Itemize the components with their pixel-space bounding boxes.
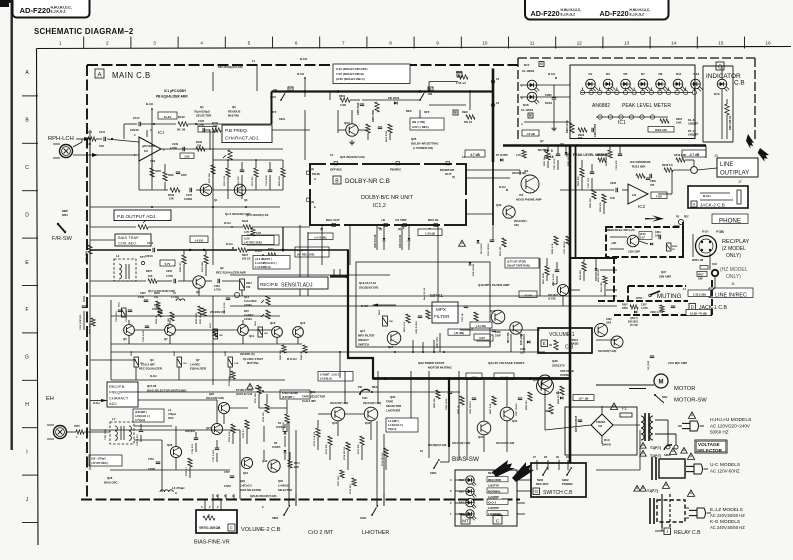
svg-text:D: D [25, 212, 29, 218]
svg-text:C905: C905 [545, 93, 552, 97]
label R-CH rowG [150, 357, 297, 378]
label Q1 selector [194, 105, 211, 118]
svg-text:ON (AT TAPE RUN): ON (AT TAPE RUN) [507, 265, 530, 268]
svg-text:C805 100/10: C805 100/10 [470, 401, 472, 414]
frame column ticks [84, 37, 745, 49]
parts row F upper [90, 292, 240, 342]
transistor Q30 [262, 459, 280, 472]
svg-text:R511 10K: R511 10K [601, 282, 603, 292]
value box 3.7V AT STOP [505, 258, 539, 268]
indicator terminal pins row [580, 88, 696, 95]
resistor R705 [191, 438, 198, 454]
LED D17 [527, 80, 539, 92]
svg-text:Q25: Q25 [411, 137, 417, 141]
svg-text:470μH: 470μH [168, 412, 176, 416]
svg-text:8: 8 [389, 41, 392, 46]
bias LED D21 [459, 498, 476, 509]
transistor Q34 [500, 407, 518, 423]
capacitor C707 3.3/50 [224, 471, 234, 488]
svg-text:I: I [26, 449, 27, 455]
bias LED box [455, 470, 517, 526]
warning T1 PT 2 [640, 450, 661, 458]
svg-text:PHONE: PHONE [719, 217, 741, 224]
boxed C small2 [457, 72, 462, 77]
bus thick horizontal y91 [272, 90, 494, 93]
svg-text:1/2 VRIF: 1/2 VRIF [395, 218, 407, 222]
bus medium y250 [90, 249, 349, 252]
svg-text:R310 40R: R310 40R [201, 262, 204, 272]
svg-text:D9 151555: D9 151555 [481, 243, 483, 254]
svg-text:E6R: E6R [294, 466, 299, 469]
svg-text:D17: D17 [524, 63, 530, 67]
svg-text:REC-OUT: REC-OUT [326, 218, 340, 222]
svg-text:REC/P.B: REC/P.B [109, 384, 125, 389]
svg-text:D14 151588: D14 151588 [472, 263, 475, 276]
transistor Q27 [206, 423, 223, 434]
svg-text:C409 0.0056: C409 0.0056 [415, 321, 418, 334]
label Q36 2SD1275 VOLTAGE CONST [552, 359, 574, 377]
svg-text:S901: S901 [430, 471, 437, 475]
svg-text:B-CH: B-CH [146, 102, 153, 106]
svg-text:CrO 2 /MT: CrO 2 /MT [308, 530, 334, 536]
svg-text:Q5,7,9 2SC1815(Y,GR): Q5,7,9 2SC1815(Y,GR) [148, 289, 175, 293]
svg-text:KT10B KT10A: KT10B KT10A [236, 389, 253, 392]
svg-text:Q27: Q27 [206, 426, 211, 430]
svg-text:Q1: Q1 [214, 198, 218, 202]
svg-text:4.7K: 4.7K [244, 231, 249, 234]
svg-text:P.B FREQ.: P.B FREQ. [225, 128, 248, 134]
label D17 CL-9R04 [522, 62, 544, 74]
wire long horizontals [90, 130, 640, 499]
svg-text:J1: J1 [731, 282, 735, 286]
svg-text:R705 5.8H: R705 5.8H [229, 431, 231, 442]
svg-text:Q17: Q17 [388, 345, 394, 349]
svg-text:R353: R353 [672, 246, 678, 248]
svg-text:R411 4.7K: R411 4.7K [403, 321, 406, 332]
svg-text:2SA1015(Y-GR): 2SA1015(Y-GR) [363, 402, 381, 405]
svg-text:N25 2SC(B)(S(Y,GR): N25 2SC(B)(S(Y,GR) [218, 65, 243, 69]
svg-text:Q1-5 2SC945(Y,G6: Q1-5 2SC945(Y,G6 [246, 213, 269, 217]
transistor Q29 [206, 392, 230, 414]
boxed E small [428, 87, 433, 92]
resistor R415 33K [378, 309, 393, 326]
svg-text:C301 10/16: C301 10/16 [554, 158, 556, 170]
svg-text:D7: D7 [641, 72, 645, 76]
svg-text:LH/OTHER: LH/OTHER [362, 530, 389, 536]
svg-text:C401: C401 [520, 348, 526, 351]
svg-text:10K: 10K [264, 333, 268, 335]
svg-text:2SC1815(Y-GR): 2SC1815(Y-GR) [598, 350, 616, 353]
svg-text:D11: D11 [676, 72, 682, 76]
label Q3 CrO2 MT REC EQUALIZER [139, 358, 162, 371]
bold arrow 2 [758, 148, 769, 162]
capacitor C403 100P [489, 330, 496, 346]
label R-CH recplay left [702, 231, 722, 234]
LED D9 [656, 72, 668, 91]
svg-text:C.B: C.B [734, 80, 745, 87]
value box rec levels 3line [253, 256, 290, 270]
svg-text:L7: L7 [112, 417, 116, 421]
svg-text:FREQ.: FREQ. [109, 390, 121, 395]
svg-text:13: 13 [496, 77, 500, 81]
svg-text:R610 470K: R610 470K [385, 131, 388, 142]
value box 14.1 MT [386, 418, 418, 432]
bias label NORMAL [487, 488, 508, 493]
mic amp transistor [627, 235, 639, 247]
value box 3.3V AT REC DUE [247, 235, 279, 245]
svg-text:AC 240V,50/60 HZ: AC 240V,50/60 HZ [710, 525, 745, 530]
diode D2 151555 [272, 442, 287, 453]
svg-text:1/50: 1/50 [520, 353, 525, 355]
svg-text:CL-9R04: CL-9R04 [522, 69, 535, 73]
resistor R317 15K [210, 322, 223, 339]
svg-text:U.B: U.B [598, 425, 602, 428]
svg-text:R713 47K: R713 47K [325, 444, 328, 454]
svg-text:C213 100P/500: C213 100P/500 [80, 314, 82, 330]
svg-text:4.7V(LH): 4.7V(LH) [135, 419, 145, 422]
wire EJZ plug [685, 508, 689, 518]
LED D18 [527, 92, 539, 104]
svg-text:BIAS-FINE-VR: BIAS-FINE-VR [194, 540, 230, 546]
wire S202 to bus [429, 77, 491, 117]
resistor R241 [131, 350, 144, 367]
wire row E [90, 225, 340, 296]
svg-text:(3.7V (AT STOP): (3.7V (AT STOP) [507, 261, 526, 264]
label SP62 220K [196, 306, 202, 324]
label HZ MODEL ONLY [720, 267, 748, 280]
coil L1 dashed box [114, 254, 136, 281]
label Q17 MPX FILTER switch [358, 329, 374, 347]
label U-C MODELS [710, 462, 740, 474]
switch S801 [272, 505, 290, 520]
svg-text:( AT MT. REC): ( AT MT. REC) [91, 461, 108, 465]
svg-text:B-CH: B-CH [300, 57, 307, 61]
svg-text:R111 5.1K: R111 5.1K [224, 175, 226, 186]
svg-text:1-33 dB: 1-33 dB [425, 231, 435, 235]
svg-text:SELECTOR: SELECTOR [386, 404, 401, 408]
label VOLUME-1 C.B [541, 332, 575, 351]
svg-text:1/2: 1/2 [144, 149, 148, 153]
svg-text:5.2V: 5.2V [244, 237, 250, 241]
frame column numbers [59, 41, 771, 46]
svg-text:TAPE: TAPE [386, 400, 393, 404]
svg-text:Q37: Q37 [661, 270, 667, 274]
transistor Q11 [238, 325, 255, 338]
svg-text:R715 47K: R715 47K [357, 444, 360, 454]
label Q32 TAPE SELECTOR LH OTHER [386, 395, 401, 413]
svg-text:Ra:9 1K 1/4: Ra:9 1K 1/4 [423, 287, 426, 300]
svg-text:12.9V: 12.9V [524, 293, 532, 297]
svg-text:C407 0.01: C407 0.01 [436, 337, 439, 348]
svg-text:Q29,30 2SC945(Y,GR) -: Q29,30 2SC945(Y,GR) - [250, 494, 278, 498]
svg-text:S201: S201 [279, 117, 286, 121]
svg-text:MAIN C.B: MAIN C.B [112, 71, 151, 80]
resistor R133 2K [177, 115, 188, 132]
VOLTAGE SELECTOR box [695, 440, 727, 453]
svg-text:R605 470K: R605 470K [372, 110, 375, 122]
pin numbers bottom left [216, 494, 234, 499]
label MAIN C.B [95, 69, 151, 80]
svg-text:LINE: LINE [720, 162, 733, 168]
boxed C small [288, 87, 293, 92]
svg-text:(> POWER ON): (> POWER ON) [413, 146, 433, 150]
svg-text:R703 4.7: R703 4.7 [242, 428, 245, 438]
svg-text:BIAS-SW: BIAS-SW [452, 456, 480, 463]
svg-text:LEVEL: LEVEL [244, 317, 253, 321]
svg-text:Q11: Q11 [249, 334, 255, 338]
svg-text:C350 100P: C350 100P [628, 251, 640, 254]
resistor R310 6.8 [662, 163, 673, 172]
svg-text:SP62 220K: SP62 220K [196, 312, 198, 324]
svg-text:4.7/50: 4.7/50 [197, 124, 205, 127]
jack1 bottom dashed y315 [614, 314, 712, 316]
label R-CH ic2 [499, 185, 508, 191]
svg-text:Q32: Q32 [390, 395, 396, 399]
P.B OUTPUT ADJ box [114, 210, 171, 221]
wire tape selector [264, 414, 386, 506]
bus thick vertical x570 [569, 146, 572, 464]
svg-text:D(D8: D(D8 [674, 226, 680, 228]
svg-text:R311 47K: R311 47K [577, 176, 580, 186]
svg-text:C605 33/16: C605 33/16 [357, 102, 360, 115]
svg-text:E: E [543, 341, 546, 346]
svg-text:E,J,K,G,Z: E,J,K,G,Z [51, 10, 66, 14]
svg-text:330K: 330K [622, 307, 628, 310]
svg-text:J7: J7 [738, 180, 742, 184]
svg-text:C611 100/16: C611 100/16 [488, 243, 490, 256]
svg-text:151358: 151358 [276, 426, 285, 429]
svg-text:LH2(TRP: LH2(TRP [488, 506, 499, 510]
svg-text:(17~19): (17~19) [579, 396, 589, 400]
transistor Q33c [477, 421, 491, 439]
label D6 detect [556, 392, 563, 400]
svg-text:4.7K: 4.7K [516, 154, 521, 157]
switch S903 POWER [562, 467, 573, 486]
svg-text:D501 151555: D501 151555 [598, 268, 600, 282]
label R-CH rail arrow [90, 399, 108, 405]
trim pot VR1 [223, 150, 232, 160]
svg-text:0V(LH): 0V(LH) [388, 427, 396, 431]
IC2 opamp triangle [628, 184, 648, 209]
svg-text:Q28: Q28 [167, 443, 173, 447]
svg-text:H,HU,HJ,U,C,: H,HU,HJ,U,C, [630, 8, 651, 12]
label B DOLBY-NR C.B [333, 176, 390, 185]
parts row H [228, 371, 289, 442]
svg-text:Q17: Q17 [360, 329, 366, 333]
svg-text:R601: R601 [339, 94, 346, 98]
svg-text:100P: 100P [495, 335, 501, 338]
svg-text:Q9: Q9 [196, 290, 200, 294]
capacitor C805 [576, 415, 582, 432]
svg-text:REC-IN: REC-IN [428, 218, 438, 222]
svg-text:(Z MODEL: (Z MODEL [722, 246, 746, 252]
svg-text:151355: 151355 [272, 446, 281, 449]
svg-text:P.B OUTPUT ADJ.: P.B OUTPUT ADJ. [117, 214, 157, 220]
svg-text:ON (> PB): ON (> PB) [412, 120, 425, 124]
resistor R804 470 [557, 386, 564, 404]
svg-text:R313 82K: R313 82K [632, 165, 646, 169]
svg-text:C403 100P: C403 100P [489, 335, 492, 346]
svg-text:D1~8: D1~8 [688, 118, 695, 122]
indicator bottom pins [560, 142, 696, 147]
svg-text:Q33: Q33 [478, 435, 484, 439]
svg-text:R805: R805 [545, 410, 551, 413]
svg-text:REC MUT: REC MUT [536, 482, 549, 486]
svg-text:4.7/50: 4.7/50 [170, 147, 178, 150]
svg-text:R317: R317 [210, 322, 212, 328]
ground Q23 [349, 140, 354, 145]
svg-text:2SD(304: 2SD(304 [185, 430, 195, 433]
warning T1 PT 1 [640, 442, 661, 450]
svg-text:Q28: Q28 [209, 392, 214, 396]
transistor Q5 [123, 325, 134, 341]
svg-text:R213: R213 [246, 282, 252, 285]
svg-text:LH-BIAS: LH-BIAS [278, 484, 289, 488]
label RELAY C.B [655, 524, 701, 536]
value box dolby levels [333, 64, 410, 84]
svg-text:Q30: Q30 [278, 479, 283, 483]
svg-text:REC EQUALIZER AMP.: REC EQUALIZER AMP. [216, 271, 246, 275]
svg-text:10K: 10K [213, 125, 218, 128]
svg-text:C117: C117 [133, 116, 140, 120]
peak level meter box [570, 65, 695, 139]
resistor R123 4.7K [242, 220, 252, 234]
label D JACK-1 C.B [689, 304, 728, 312]
switch S108 rec [674, 217, 689, 229]
svg-text:3: 3 [153, 41, 156, 46]
svg-text:S401: S401 [360, 516, 367, 520]
terminal dark line-in [712, 270, 718, 276]
value box 0.6V MT levels [133, 409, 164, 422]
value box 8.5K [280, 390, 310, 399]
resistor R327 15K [146, 270, 157, 283]
svg-text:6801: 6801 [62, 213, 68, 217]
capacitor C101 1/50 [99, 131, 106, 148]
mic amp dashed box [606, 227, 683, 257]
resistor R701 [74, 425, 84, 439]
svg-text:12: 12 [496, 101, 500, 105]
resistor R417 10M box [697, 272, 707, 281]
svg-text:100: 100 [87, 143, 92, 146]
bus thick vertical x271 [271, 92, 273, 125]
svg-text:R305 33K: R305 33K [590, 198, 592, 208]
svg-text:2SC1815(Y-GR): 2SC1815(Y-GR) [452, 442, 470, 445]
wire row H [90, 379, 287, 444]
svg-text:R-CH: R-CH [290, 357, 297, 361]
label Q26 BIAS OSC [104, 476, 118, 485]
label DOLBY-B/C NR UNIT IC1,2 [361, 195, 414, 209]
wire long rails left [66, 130, 213, 439]
resistor R608 [366, 124, 370, 133]
wire jack column [684, 234, 715, 291]
svg-text:TS60RA: TS60RA [596, 421, 605, 424]
svg-text:VOLUME-2 C.B: VOLUME-2 C.B [241, 527, 281, 533]
warning plug UC [687, 453, 694, 459]
svg-text:R329 100: R329 100 [180, 262, 182, 272]
resistor R715 [357, 436, 364, 454]
svg-text:SELECTOR: SELECTOR [697, 448, 723, 453]
value box 3.3V mpx [474, 334, 490, 340]
svg-text:15K: 15K [246, 286, 251, 289]
warning EJZ top [662, 482, 669, 488]
svg-text:SWITCH C.B: SWITCH C.B [543, 490, 573, 496]
capacitor C117 100/16 [130, 116, 141, 132]
LED D1 [586, 72, 598, 91]
svg-text:1/50: 1/50 [610, 197, 615, 200]
svg-text:C213: C213 [147, 242, 154, 245]
svg-text:HEAD PHONE AMP: HEAD PHONE AMP [516, 198, 542, 202]
svg-text:1K: 1K [672, 249, 675, 251]
svg-text:R105: R105 [168, 193, 175, 197]
svg-text:OSC: OSC [168, 416, 174, 420]
dolby top pin labels [330, 162, 455, 180]
svg-text:R311: R311 [255, 320, 257, 326]
svg-text:F1: F1 [622, 406, 628, 411]
MPX FILTER box [432, 302, 458, 323]
capacitor C411 [461, 306, 468, 322]
indicator board dashed outline [518, 58, 755, 142]
transistor Q35 [533, 378, 554, 395]
svg-text:R704 15K: R704 15K [228, 376, 231, 386]
svg-text:Q5: Q5 [123, 337, 127, 341]
svg-text:R310 6.8: R310 6.8 [662, 163, 673, 167]
svg-text:Q29: Q29 [240, 479, 245, 483]
svg-text:(7): (7) [452, 175, 455, 179]
svg-text:Q13: Q13 [270, 321, 276, 325]
parts cluster row C right [209, 165, 285, 186]
label R-CH head [146, 102, 153, 124]
svg-text:10: 10 [482, 41, 488, 46]
svg-text:LH/CòO 2: LH/CòO 2 [240, 484, 252, 488]
voltage selector contacts [664, 445, 687, 457]
svg-text:C211: C211 [154, 304, 160, 307]
svg-text:LM(3)TP: LM(3)TP [688, 122, 698, 126]
resistor R233 [156, 308, 162, 324]
BIAS TRAP COIL ADJ box [115, 234, 151, 246]
svg-text:T1(P,T): T1(P,T) [647, 489, 658, 493]
svg-text:R15: R15 [244, 309, 249, 313]
D15 sub box [703, 66, 733, 142]
svg-text:U-C MODELS: U-C MODELS [710, 462, 740, 468]
transistor Q13 [270, 321, 282, 337]
svg-text:R221: R221 [119, 301, 121, 307]
svg-text:NORMAL: NORMAL [488, 489, 501, 493]
svg-text:Q3: Q3 [232, 105, 236, 109]
svg-text:D18: D18 [523, 103, 529, 107]
label R-CH top [297, 72, 306, 79]
value box 160-170mV [89, 455, 122, 466]
svg-text:F: F [25, 307, 28, 313]
svg-text:JACK-2 C.B: JACK-2 C.B [700, 203, 725, 208]
svg-text:R706 15K: R706 15K [263, 412, 265, 422]
frame row letters [25, 70, 29, 503]
value box 0.68-70dB [686, 310, 711, 316]
bias osc transformer L7 [105, 417, 134, 444]
svg-text:R809 560: R809 560 [526, 400, 528, 410]
svg-text:MOTOR: MOTOR [674, 386, 695, 392]
svg-text:1: 1 [59, 41, 62, 46]
label 1-R3 4B15MT list [647, 0, 649, 1]
svg-text:EQUALIZER: EQUALIZER [190, 367, 206, 371]
svg-text:AN6882: AN6882 [592, 103, 610, 109]
svg-text:R327: R327 [146, 270, 153, 273]
resistor R714 560 [343, 442, 350, 460]
label Q11 REC START MUTING [240, 353, 264, 365]
resistor R703 4.7 [185, 458, 192, 476]
svg-text:S701: S701 [636, 296, 643, 300]
svg-text:DOLBY-NR SETTING: DOLBY-NR SETTING [411, 142, 439, 146]
svg-text:E,J,K,G,Z: E,J,K,G,Z [630, 13, 645, 17]
